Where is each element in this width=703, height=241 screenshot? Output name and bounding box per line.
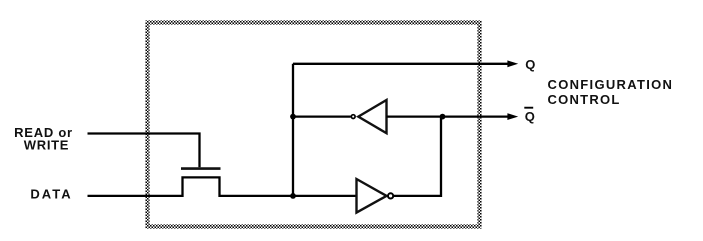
svg-text:DATA: DATA (30, 187, 72, 202)
svg-text:Q: Q (525, 57, 535, 72)
junction dot: Q-bar node (440, 114, 446, 120)
device boundary (dotted configuration-memory cell box) (148, 23, 480, 227)
label READ or WRITE (14, 125, 73, 152)
wire: inverter U2 output up to Q-bar node (394, 117, 441, 196)
arrow: Q-bar output (507, 113, 518, 120)
inverter U2 bubble (388, 193, 393, 198)
wire: DATA input through transistor Q1 channel to inverter U2 input (88, 177, 358, 196)
transistor Q1 gate bar (181, 167, 221, 170)
wire: Q-bar line from inverter U1 input to output arrow (387, 115, 510, 117)
wire: node D feedback vertical to Q line (292, 64, 294, 196)
label Q (525, 57, 535, 72)
svg-text:WRITE: WRITE (24, 137, 69, 152)
inverter U2 (forward, pointing right) triangle (357, 179, 387, 213)
wire: Q output line (293, 63, 510, 65)
wire: READ/WRITE input to transistor gate (88, 134, 200, 168)
inverter U1 (feedback, pointing left) bubble (351, 115, 355, 119)
wire: inverter U1 output to node D (293, 115, 351, 117)
label CONFIGURATION CONTROL (548, 77, 674, 107)
junction dot: node D on DATA line (290, 193, 296, 199)
svg-text:CONTROL: CONTROL (548, 92, 621, 107)
arrow: Q output (507, 60, 518, 67)
svg-text:CONFIGURATION: CONFIGURATION (548, 77, 674, 92)
svg-text:Q: Q (525, 109, 535, 124)
label Q-bar (524, 108, 535, 124)
label DATA (30, 187, 72, 202)
inverter U1 (feedback, pointing left) triangle (358, 100, 386, 133)
junction dot: node D on inverter U1 output (290, 114, 296, 120)
